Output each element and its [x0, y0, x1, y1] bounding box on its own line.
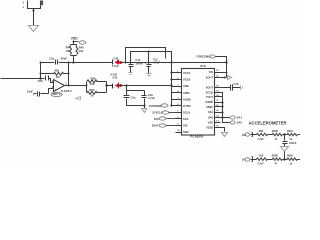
svg-text:4.7uF: 4.7uF [153, 61, 160, 65]
svg-text:REF 2: REF 2 [53, 92, 61, 96]
junction dot pin19 [224, 77, 226, 79]
ground (top-left) [29, 26, 39, 32]
junction dot rail A [125, 62, 127, 64]
svg-text:GYRO: GYRO [183, 104, 191, 108]
svg-text:4.7uF: 4.7uF [112, 64, 119, 68]
svg-text:VSS2: VSS2 [206, 125, 213, 129]
wire feedback right vertical [68, 63, 70, 86]
capacitor C56 (input coupling) [46, 76, 49, 81]
ground (between J rows) [281, 147, 289, 152]
ground C13 (grey bars) [241, 86, 244, 90]
junction dot output/feedback [68, 85, 70, 87]
svg-text:4.7uF: 4.7uF [257, 162, 264, 165]
op-amp U15A TLC27L2 [54, 80, 65, 92]
svg-text:SCS: SCS [183, 117, 189, 121]
svg-text:C56: C56 [38, 79, 43, 83]
junction dots feedback [40, 62, 42, 64]
svg-text:AGND: AGND [183, 97, 191, 101]
svg-text:VDD: VDD [71, 37, 78, 41]
ground C11 [147, 74, 152, 76]
svg-text:YOUT: YOUT [206, 95, 214, 99]
junction dot frame top [125, 84, 127, 86]
svg-text:10k: 10k [90, 82, 95, 86]
svg-text:SDAT: SDAT [152, 125, 159, 128]
capacitor C11 4.7uF [147, 52, 152, 74]
svg-text:SA1: SA1 [208, 110, 214, 114]
svg-text:FORCEMX: FORCEMX [197, 54, 211, 58]
svg-text:1k: 1k [91, 93, 94, 97]
svg-text:47pF: 47pF [61, 57, 68, 61]
wire lower cap frame [127, 86, 145, 109]
svg-text:100nF: 100nF [135, 61, 143, 65]
svg-text:R60: R60 [259, 130, 264, 133]
svg-text:4.7uF: 4.7uF [148, 96, 155, 100]
wire R block to C41 [107, 85, 113, 87]
wire VDD resistors to rail [71, 55, 77, 63]
svg-text:4.7uF: 4.7uF [257, 138, 264, 141]
junction dot VDD [73, 41, 75, 43]
resistor R51 (feedback) [41, 73, 54, 75]
svg-text:C41: C41 [112, 76, 117, 80]
junction dot on J1 stem [32, 9, 34, 11]
svg-text:R61A: R61A [287, 130, 293, 133]
op IC U16 body [182, 69, 215, 136]
wire gnd to row J61 [284, 152, 286, 160]
svg-text:10uF: 10uF [27, 90, 34, 94]
svg-text:VCCA: VCCA [183, 71, 190, 75]
op-amp power stub (grey) [76, 97, 81, 100]
wire rail B (inner) [131, 52, 172, 65]
svg-text:C1a: C1a [131, 95, 136, 99]
ground pin (bottom right of IC) [221, 128, 225, 132]
svg-text:SYSCLK: SYSCLK [152, 111, 162, 114]
svg-text:ANPL: ANPL [183, 91, 190, 95]
svg-text:XOUT: XOUT [206, 86, 214, 90]
wire feedback left vertical [40, 63, 42, 79]
capacitor C5a (47pF) [56, 60, 58, 65]
IC left pin stubs and labels [176, 72, 182, 74]
svg-text:100nF: 100nF [289, 141, 297, 145]
wire cap to op-amp minus input [49, 79, 54, 83]
svg-text:C13: C13 [233, 82, 238, 86]
junction dot input [39, 77, 41, 79]
IC right pin stubs and labels [215, 72, 221, 74]
svg-text:R62B: R62B [272, 155, 278, 158]
junction dot frame bottom [143, 104, 145, 106]
wire upper rail [41, 62, 227, 64]
svg-text:ACCELEROMETER: ACCELEROMETER [249, 120, 288, 125]
junction dots IC left bus [170, 61, 172, 63]
resistor R44 [70, 46, 72, 55]
svg-text:SCK: SCK [154, 118, 159, 121]
supply arrow (grey) [228, 76, 232, 80]
junction dot (red) after C40 [119, 61, 122, 64]
wire bus stubs to left pins [172, 72, 182, 74]
junction dot (red) after C41 [119, 84, 122, 87]
svg-text:GYROPWR: GYROPWR [149, 105, 162, 108]
svg-text:C40: C40 [113, 56, 118, 60]
junction dot rail B [148, 51, 150, 53]
svg-text:VSS: VSS [208, 121, 213, 125]
wire rail A (outer) [126, 48, 166, 63]
svg-text:SCLK: SCLK [183, 110, 190, 114]
svg-text:C5a: C5a [49, 57, 54, 61]
wire IC left bus [171, 63, 173, 106]
resistor R46 [86, 81, 88, 83]
svg-text:TLC27L2: TLC27L2 [61, 89, 73, 93]
capacitor C62 [283, 135, 288, 147]
svg-text:R46: R46 [91, 77, 96, 81]
capacitor C12b [142, 96, 147, 98]
svg-text:R62A: R62A [287, 155, 293, 158]
svg-text:SDO: SDO [183, 130, 189, 134]
wire VDD stem [71, 41, 77, 46]
capacitor C40 (4.7uF polarized) [112, 60, 114, 65]
capacitor C13 [221, 85, 241, 91]
svg-text:VREF: VREF [206, 105, 213, 109]
wire lower line to IC bus [119, 85, 172, 87]
capacitor C57 (10uF) [38, 92, 40, 97]
svg-text:ANB: ANB [183, 84, 189, 88]
svg-text:SDI: SDI [183, 124, 188, 128]
net tag oval (VDD net) [74, 41, 79, 43]
wire R block verticals [87, 82, 107, 93]
wire right bus [221, 93, 230, 123]
svg-text:R61B: R61B [272, 130, 278, 133]
svg-text:VID: VID [209, 70, 213, 74]
ground frame [142, 109, 147, 113]
svg-text:PCA8320: PCA8320 [190, 134, 203, 138]
net tag oval REF2 [51, 92, 62, 96]
svg-text:C60: C60 [259, 155, 264, 158]
svg-text:SA1: SA1 [237, 115, 243, 119]
junction dots R block [86, 85, 88, 87]
svg-text:U16: U16 [200, 64, 206, 68]
svg-text:SA0: SA0 [208, 115, 214, 119]
svg-text:COMP: COMP [205, 100, 213, 104]
ground C10 [129, 73, 133, 75]
svg-text:10k: 10k [79, 49, 84, 53]
svg-text:R51: R51 [55, 68, 60, 72]
wire op-amp plus branch [34, 89, 54, 94]
resistor R45 [76, 46, 78, 55]
junction dot rail/VDD [72, 61, 74, 63]
junction dot rail/right vertical [225, 61, 227, 63]
svg-text:-: - [55, 82, 56, 85]
svg-text:VCCB: VCCB [183, 78, 190, 82]
wire op-amp output [65, 85, 87, 87]
wire FORCEMX to pins [216, 57, 227, 78]
net tag SA0 [230, 121, 235, 124]
net tag SA1 [221, 117, 230, 119]
svg-text:SA0: SA0 [237, 121, 243, 125]
wire input line [1, 78, 45, 80]
svg-text:AOUT: AOUT [206, 76, 214, 80]
connector J1 (cut off at top edge) [28, 1, 41, 26]
svg-text:VCCB: VCCB [206, 91, 213, 95]
capacitor C12a [124, 96, 130, 98]
svg-text:10k: 10k [66, 49, 71, 53]
capacitor C10 100nF [129, 65, 134, 73]
